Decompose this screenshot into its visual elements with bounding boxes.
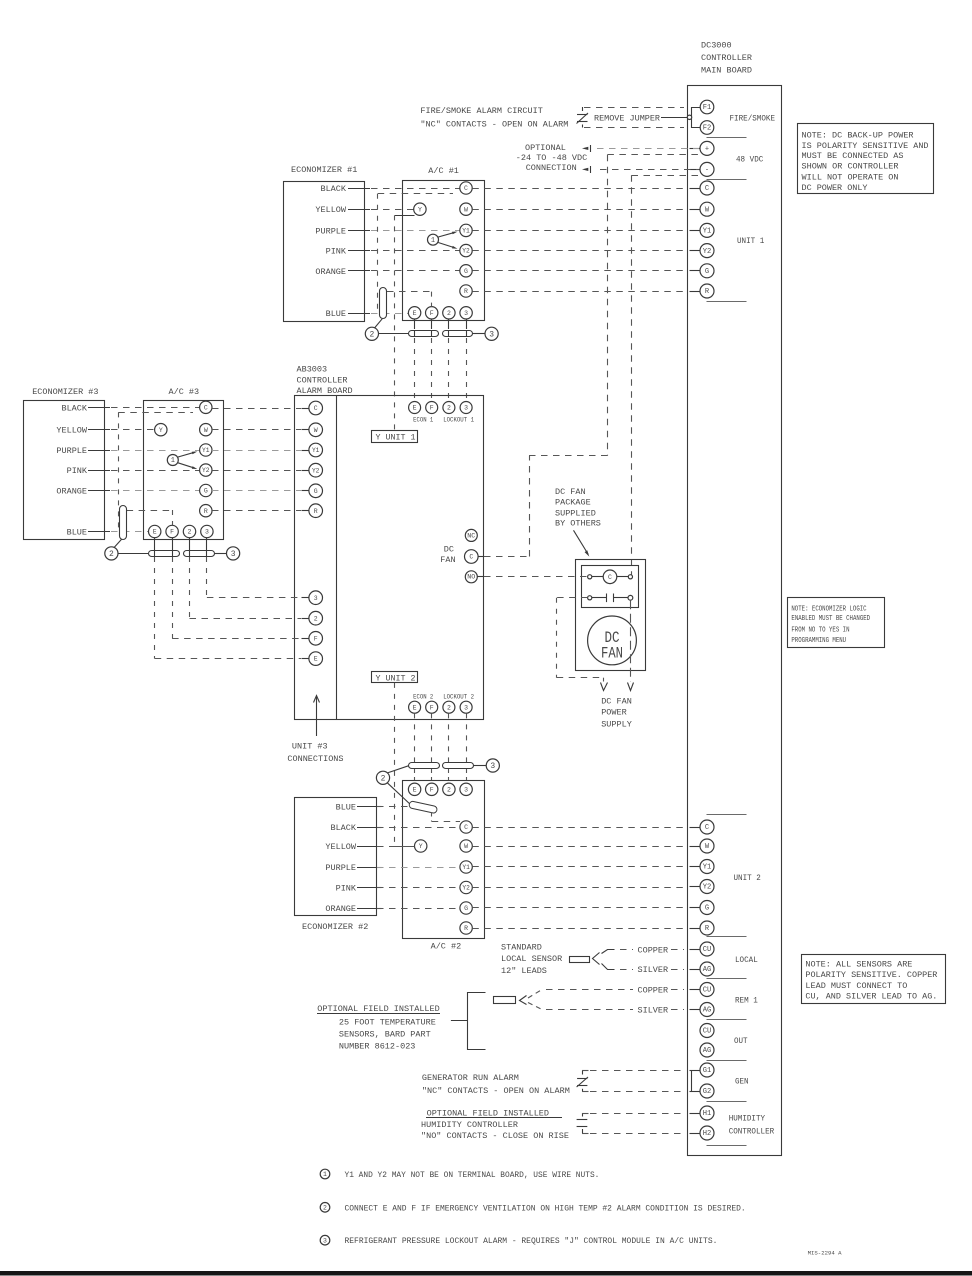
- svg-text:3: 3: [231, 550, 236, 559]
- svg-text:IS POLARITY SENSITIVE AND: IS POLARITY SENSITIVE AND: [802, 141, 929, 151]
- alarm board terminal NO: [465, 571, 477, 583]
- alarm board terminal E (econ1/lockout1): [409, 402, 421, 414]
- remote sensor fork: [520, 996, 527, 1005]
- wire remote sensor silver: [528, 1003, 633, 1010]
- DC fan package outer box: [576, 560, 646, 671]
- A/C #2 terminal 3: [460, 783, 472, 795]
- generator NC contact: [577, 1071, 589, 1092]
- svg-text:W: W: [204, 427, 208, 434]
- svg-text:PINK: PINK: [336, 884, 357, 894]
- A/C #3 terminal 3: [201, 525, 213, 537]
- callout 2 line to wire nut (ac2): [388, 766, 409, 773]
- svg-text:Y: Y: [419, 843, 423, 850]
- sensor bracket: [451, 993, 486, 1050]
- wire ac3 3 to alarm 3: [207, 557, 302, 598]
- svg-text:DC FAN: DC FAN: [601, 697, 632, 707]
- economizer #2 lead BLUE: [336, 803, 380, 813]
- wire silver to AG (local): [671, 969, 684, 971]
- wire econ2 BLACK to C: [377, 827, 460, 829]
- svg-text:W: W: [464, 206, 468, 213]
- svg-text:Y1: Y1: [703, 864, 712, 872]
- note 3 callout circle A/C #1: [485, 327, 498, 340]
- svg-text:DC POWER ONLY: DC POWER ONLY: [802, 183, 868, 193]
- generator run alarm label: [422, 1073, 570, 1096]
- svg-text:SENSORS, BARD PART: SENSORS, BARD PART: [339, 1030, 431, 1040]
- alarm board terminal 3 (left): [302, 591, 323, 605]
- main board terminal CU (y=989): [700, 983, 714, 997]
- svg-text:-24 TO -48 VDC: -24 TO -48 VDC: [516, 153, 587, 163]
- note 1 callout circle at A/C #3: [167, 455, 178, 466]
- column ticks through wire nuts A/C #3: [155, 538, 207, 557]
- main board terminal Y2 (y=250): [700, 244, 714, 258]
- callout 2 line to jumper sleeve (ac3): [114, 539, 122, 548]
- economizer #1 lead BLUE: [326, 309, 370, 319]
- svg-text:LOCKOUT 2: LOCKOUT 2: [443, 694, 474, 701]
- wire econ2 ORANGE to G: [377, 908, 460, 910]
- svg-text:1: 1: [171, 457, 175, 465]
- svg-text:ENABLED MUST BE CHANGED: ENABLED MUST BE CHANGED: [791, 615, 870, 623]
- wire econ2 YELLOW to Y: [377, 846, 415, 848]
- economizer #3 lead BLACK: [61, 403, 110, 413]
- svg-text:CONTROLLER: CONTROLLER: [729, 1126, 775, 1136]
- DC fan package label: [555, 487, 601, 528]
- economizer #1 lead ORANGE: [315, 267, 370, 277]
- callout 3 line (ac3): [214, 553, 226, 555]
- A/C #3 terminal Y2: [200, 464, 212, 476]
- wire econ2 BLUE to jumper: [377, 806, 409, 808]
- alarm board terminal 2 (left): [302, 611, 323, 625]
- A/C #1 terminal R: [460, 285, 472, 297]
- svg-text:PACKAGE: PACKAGE: [555, 498, 591, 508]
- wire F2 dashed: [584, 127, 684, 129]
- alarm board terminal R (left): [302, 504, 323, 518]
- svg-text:F2: F2: [703, 125, 712, 133]
- wire A/C#3 G to alarm board: [212, 490, 301, 492]
- svg-text:Y: Y: [159, 427, 163, 434]
- wire local sensor copper: [602, 950, 634, 954]
- svg-text:BLACK: BLACK: [320, 184, 346, 194]
- svg-text:G2: G2: [703, 1088, 712, 1096]
- A/C #2 terminal 2: [443, 783, 455, 795]
- svg-text:1: 1: [323, 1171, 327, 1178]
- wire remote sensor copper: [528, 990, 633, 999]
- main board terminal R (y=291): [700, 284, 714, 298]
- wire Y unit2 vertical: [395, 683, 415, 847]
- A/C #1 terminal 3: [460, 307, 472, 319]
- svg-text:2: 2: [323, 1204, 327, 1211]
- A/C #2 terminal Y1: [460, 861, 472, 873]
- wire G1 dashed: [590, 1070, 684, 1072]
- A/C #1 terminal Y1: [460, 224, 472, 236]
- svg-text:C: C: [464, 824, 468, 831]
- svg-text:AB3003: AB3003: [297, 365, 328, 375]
- jumper sleeve (vertical) A/C #3: [120, 506, 127, 540]
- svg-text:GENERATOR RUN ALARM: GENERATOR RUN ALARM: [422, 1073, 519, 1083]
- svg-text:G: G: [204, 488, 208, 495]
- main board terminal - (y=169): [700, 162, 714, 176]
- wire ac3 2 to alarm 2: [190, 557, 302, 619]
- svg-text:Y2: Y2: [312, 467, 320, 474]
- main board terminal C (y=188): [700, 181, 714, 195]
- svg-text:CONTROLLER: CONTROLLER: [297, 376, 348, 386]
- svg-text:YELLOW: YELLOW: [315, 205, 347, 215]
- svg-text:ECONOMIZER #2: ECONOMIZER #2: [302, 922, 368, 932]
- svg-text:CONNECT E AND F IF EMERGENCY V: CONNECT E AND F IF EMERGENCY VENTILATION…: [345, 1203, 746, 1213]
- svg-text:Y2: Y2: [703, 248, 712, 256]
- svg-text:E: E: [413, 405, 417, 412]
- svg-text:NOTE: DC BACK-UP POWER: NOTE: DC BACK-UP POWER: [802, 130, 914, 140]
- economizer #3 lead PINK: [67, 466, 110, 476]
- svg-text:DC: DC: [444, 545, 454, 555]
- A/C #2 terminal Y2: [460, 881, 472, 893]
- alarm board terminal 3 (econ2/lockout2): [460, 701, 472, 713]
- A/C #1 terminal Y2: [460, 244, 472, 256]
- svg-text:AG: AG: [703, 966, 712, 974]
- stub C dc fan: [478, 556, 484, 558]
- A/C #3 terminal Y1: [200, 444, 212, 456]
- svg-text:2: 2: [381, 774, 386, 783]
- svg-text:F: F: [430, 704, 434, 711]
- svg-text:MUST BE CONNECTED AS: MUST BE CONNECTED AS: [802, 151, 904, 161]
- svg-text:LOCKOUT 1: LOCKOUT 1: [443, 417, 474, 424]
- svg-text:Y1: Y1: [312, 447, 320, 454]
- svg-text:ECON 2: ECON 2: [413, 694, 433, 701]
- note 2 callout circle A/C #1: [365, 327, 378, 340]
- svg-text:3: 3: [464, 786, 468, 793]
- note box: economizer logic: [788, 598, 885, 648]
- svg-text:PROGRAMMING MENU: PROGRAMMING MENU: [791, 637, 846, 645]
- svg-text:F1: F1: [703, 104, 712, 112]
- F1-F2 jumper bracket: [692, 108, 701, 128]
- A/C #3 terminal 2: [183, 525, 195, 537]
- wire nut sleeve E-F A/C #3: [149, 551, 180, 557]
- svg-text:R: R: [464, 925, 468, 932]
- svg-text:C: C: [705, 185, 709, 193]
- svg-text:YELLOW: YELLOW: [325, 842, 357, 852]
- svg-text:2: 2: [369, 330, 374, 339]
- svg-text:NC: NC: [467, 532, 475, 539]
- svg-text:2: 2: [314, 615, 318, 622]
- svg-text:CU: CU: [703, 946, 712, 954]
- wire E-F emergency vent jumper A/C #3: [127, 510, 173, 525]
- A/C #2 terminal G: [460, 902, 472, 914]
- remove jumper leader line: [661, 117, 687, 119]
- G1-G2 bracket wire: [692, 1071, 701, 1092]
- svg-text:F: F: [170, 529, 174, 536]
- wire F1 dashed: [584, 107, 684, 109]
- svg-text:NUMBER 8612-023: NUMBER 8612-023: [339, 1041, 416, 1051]
- main board terminal C (y=827): [700, 820, 714, 834]
- note 2 callout circle A/C #2: [376, 771, 389, 784]
- A/C #2 terminal W: [460, 840, 472, 852]
- svg-text:G: G: [705, 268, 709, 276]
- wire A/C#1 Y1 to main board: [472, 230, 686, 232]
- main board terminal Y1 (y=230): [700, 223, 714, 237]
- wire A/C#1 W to main board: [472, 209, 686, 211]
- wire A/C#2 Y2 to main board: [472, 887, 686, 889]
- A/C #2 terminal E: [408, 783, 420, 795]
- main board terminal W (y=209): [700, 202, 714, 216]
- alarm board terminal F (econ2/lockout2): [426, 701, 438, 713]
- wire copper to CU (local): [671, 949, 684, 951]
- main board terminal CU (y=1030): [700, 1024, 714, 1038]
- svg-text:2: 2: [188, 529, 192, 536]
- economizer #3 lead ORANGE: [56, 487, 110, 497]
- wire copper to CU (rem): [671, 989, 684, 991]
- A/C #3 terminal G: [200, 484, 212, 496]
- svg-text:Y2: Y2: [462, 248, 470, 255]
- svg-text:F: F: [430, 786, 434, 793]
- alarm board terminal 3 (econ1/lockout1): [460, 402, 472, 414]
- A/C #1 terminal Y: [414, 203, 426, 215]
- economizer #1 lead PINK: [326, 247, 370, 257]
- main board terminal Y2 (y=886): [700, 880, 714, 894]
- wire econ2 PINK to Y2: [377, 887, 460, 889]
- stub NO dc fan: [477, 576, 484, 578]
- svg-text:C: C: [204, 404, 208, 411]
- callout 2 line to wire nut (ac3): [118, 553, 148, 555]
- alarm board terminal F (econ1/lockout1): [426, 402, 438, 414]
- note 3 circle: [320, 1235, 330, 1245]
- humidity controller label: [421, 1120, 569, 1141]
- svg-text:W: W: [314, 427, 318, 434]
- svg-text:GEN: GEN: [735, 1077, 749, 1087]
- wire A/C#1 G to main board: [472, 270, 686, 272]
- main board terminal G1 (y=1070): [700, 1063, 714, 1077]
- A/C #2 terminal R: [460, 922, 472, 934]
- A/C #3 terminal Y: [155, 424, 167, 436]
- jumper sleeve (vertical) A/C #1: [380, 288, 387, 319]
- wire econ3 BLUE to E: [111, 531, 149, 533]
- alarm board terminal Y2 (left): [302, 463, 323, 477]
- svg-text:NOTE: ALL SENSORS ARE: NOTE: ALL SENSORS ARE: [805, 960, 912, 970]
- svg-text:PURPLE: PURPLE: [315, 226, 346, 236]
- svg-text:-: -: [705, 167, 709, 175]
- svg-text:C: C: [314, 405, 318, 412]
- svg-text:HUMIDITY: HUMIDITY: [729, 1113, 765, 1123]
- alarm board terminal C (dc fan): [465, 550, 479, 564]
- svg-text:G1: G1: [703, 1067, 712, 1075]
- wire nut sleeve E-F A/C #2: [409, 763, 440, 769]
- svg-text:+: +: [705, 146, 709, 154]
- svg-text:LEAD MUST CONNECT TO: LEAD MUST CONNECT TO: [805, 981, 907, 991]
- svg-text:CU, AND SILVER LEAD TO AG.: CU, AND SILVER LEAD TO AG.: [805, 992, 937, 1002]
- svg-text:POLARITY SENSITIVE. COPPER: POLARITY SENSITIVE. COPPER: [805, 970, 937, 980]
- alarm board terminal E (left): [302, 652, 323, 666]
- note 1 callout circle at A/C #1: [428, 234, 439, 245]
- wire nut sleeve 2-3 A/C #3: [184, 551, 215, 557]
- svg-text:BY OTHERS: BY OTHERS: [555, 519, 601, 529]
- economizer #2 lead PURPLE: [325, 863, 380, 873]
- svg-text:Y2: Y2: [703, 884, 712, 892]
- svg-text:WILL NOT OPERATE ON: WILL NOT OPERATE ON: [802, 173, 899, 183]
- economizer #1 lead BLACK: [320, 184, 370, 194]
- svg-text:A/C #2: A/C #2: [431, 942, 462, 952]
- A/C #3 box: [144, 401, 224, 540]
- svg-text:BLACK: BLACK: [61, 403, 87, 413]
- wire A/C#3 W to alarm board: [212, 429, 301, 431]
- svg-text:COPPER: COPPER: [638, 986, 669, 996]
- svg-text:PINK: PINK: [67, 466, 88, 476]
- svg-text:FAN: FAN: [601, 645, 623, 663]
- svg-text:MIS-2294 A: MIS-2294 A: [808, 1250, 843, 1257]
- main board terminal F2 (y=127): [700, 121, 714, 135]
- main board terminal AG (y=969): [700, 962, 714, 976]
- A/C #2 terminal F: [426, 783, 438, 795]
- wire ac3 E to alarm E: [155, 557, 302, 659]
- svg-text:"NO" CONTACTS - CLOSE ON RISE: "NO" CONTACTS - CLOSE ON RISE: [421, 1131, 569, 1141]
- callout arrow 1 to Y2: [438, 243, 457, 249]
- svg-text:A/C #3: A/C #3: [169, 387, 200, 397]
- svg-text:CU: CU: [703, 1028, 712, 1036]
- svg-text:G: G: [705, 905, 709, 913]
- AB3003 alarm board outline: [295, 396, 484, 720]
- main board terminal R (y=928): [700, 921, 714, 935]
- svg-text:G: G: [464, 268, 468, 275]
- local sensor fork: [593, 953, 600, 965]
- wire nut sleeve E-F A/C #1: [409, 331, 439, 337]
- wire econ3 BLACK to C: [111, 407, 200, 409]
- svg-text:REM 1: REM 1: [735, 995, 758, 1005]
- svg-text:3: 3: [464, 704, 468, 711]
- unit #3 connections label: [287, 742, 343, 764]
- wire second C lead (jumper logic) A/C #3: [118, 412, 193, 531]
- svg-text:Y UNIT 2: Y UNIT 2: [376, 674, 416, 684]
- fan relay coil row: [588, 570, 633, 584]
- A/C #1 box: [403, 181, 485, 321]
- wire silver to AG (rem): [671, 1009, 684, 1011]
- svg-text:ORANGE: ORANGE: [325, 904, 356, 914]
- Y UNIT 2 label box: [372, 672, 418, 684]
- jumper sleeve (tilted) A/C #2: [409, 801, 438, 814]
- wire - row dashed: [600, 169, 699, 171]
- svg-text:BLUE: BLUE: [336, 803, 356, 813]
- main board terminal CU (y=949): [700, 942, 714, 956]
- alarm board terminal 2 (econ2/lockout2): [443, 701, 455, 713]
- columns wire nuts to A/C#2 terminals: [415, 769, 467, 783]
- fire/smoke alarm circuit label: [420, 106, 568, 129]
- alarm board terminal Y1 (left): [302, 443, 323, 457]
- svg-text:F: F: [430, 405, 434, 412]
- main board terminal AG (y=1050): [700, 1043, 714, 1057]
- wire econ1 ORANGE to G: [371, 270, 460, 272]
- svg-text:FIRE/SMOKE: FIRE/SMOKE: [730, 114, 776, 124]
- alarm board terminal C (left): [302, 401, 323, 415]
- main board terminal W (y=846): [700, 839, 714, 853]
- svg-text:"NC" CONTACTS - OPEN ON ALARM: "NC" CONTACTS - OPEN ON ALARM: [420, 119, 568, 129]
- wire - tap to DC fan supply: [632, 175, 699, 575]
- note 3 callout circle A/C #2: [486, 759, 499, 772]
- svg-text:12" LEADS: 12" LEADS: [501, 966, 547, 976]
- economizer #1 box: [284, 182, 365, 322]
- column ticks through wire nuts A/C #1: [415, 319, 467, 337]
- svg-text:48 VDC: 48 VDC: [736, 155, 763, 165]
- svg-text:F: F: [430, 310, 434, 317]
- svg-text:E: E: [413, 310, 417, 317]
- note box: DC back-up power: [798, 124, 934, 194]
- svg-text:ORANGE: ORANGE: [56, 487, 87, 497]
- wire econ3 YELLOW to Y: [111, 429, 155, 431]
- svg-text:NO: NO: [467, 574, 475, 581]
- svg-text:UNIT 2: UNIT 2: [734, 873, 761, 883]
- wire A/C#3 R to alarm board: [212, 510, 301, 512]
- wire A/C#1 R to main board: [472, 291, 686, 293]
- svg-text:AG: AG: [703, 1007, 712, 1015]
- A/C #3 terminal E: [149, 525, 161, 537]
- svg-text:3: 3: [323, 1237, 327, 1244]
- alarm board terminal G (left): [302, 484, 323, 498]
- wire Y unit1 vertical: [394, 215, 396, 430]
- svg-text:SUPPLY: SUPPLY: [601, 719, 632, 729]
- remote sensor body: [494, 997, 516, 1004]
- svg-text:H1: H1: [703, 1110, 712, 1118]
- note 2 circle: [320, 1203, 330, 1213]
- DC fan motor circle: [588, 616, 637, 665]
- svg-text:LOCAL: LOCAL: [735, 955, 758, 965]
- alarm board terminal F (left): [302, 632, 323, 646]
- alarm board DC FAN label: [440, 545, 455, 566]
- wire A/C#2 C to main board: [472, 827, 686, 829]
- main board terminal H2 (y=1133): [700, 1126, 714, 1140]
- svg-text:R: R: [464, 288, 468, 295]
- svg-text:HUMIDITY CONTROLLER: HUMIDITY CONTROLLER: [421, 1120, 518, 1130]
- svg-text:H2: H2: [703, 1130, 712, 1138]
- svg-text:BLUE: BLUE: [67, 528, 87, 538]
- economizer #3 lead PURPLE: [56, 446, 110, 456]
- wire NO to fan package: [484, 576, 588, 578]
- svg-text:REMOVE JUMPER: REMOVE JUMPER: [594, 113, 660, 123]
- wire nut sleeve 2-3 A/C #2: [443, 763, 474, 769]
- wire A/C#2 R to main board: [472, 928, 686, 930]
- svg-text:C: C: [464, 185, 468, 192]
- callout 3 line (ac2): [473, 765, 486, 767]
- svg-text:OUT: OUT: [734, 1036, 748, 1046]
- svg-text:2: 2: [447, 704, 451, 711]
- main board terminal + (y=148): [700, 141, 714, 155]
- wire econ1 BLACK to C: [371, 188, 460, 190]
- callout arrow 1 to Y1: [438, 232, 457, 237]
- A/C #3 terminal W: [200, 424, 212, 436]
- svg-text:2: 2: [447, 310, 451, 317]
- A/C #2 terminal Y: [415, 840, 427, 852]
- svg-text:3: 3: [464, 310, 468, 317]
- svg-text:UNIT #3: UNIT #3: [292, 742, 328, 752]
- svg-text:3: 3: [489, 330, 494, 339]
- A/C #1 terminal E: [408, 307, 420, 319]
- svg-text:Y1: Y1: [462, 864, 470, 871]
- svg-text:AG: AG: [703, 1047, 712, 1055]
- alarm board terminal NC: [465, 529, 477, 541]
- economizer #2 lead PINK: [336, 884, 380, 894]
- wire fan contact to supply: [557, 598, 608, 691]
- economizer #2 lead BLACK: [330, 823, 380, 833]
- svg-text:SILVER: SILVER: [638, 965, 669, 975]
- A/C #3 terminal F: [166, 525, 178, 537]
- wire econ3 ORANGE to G: [111, 490, 200, 492]
- svg-text:CONNECTIONS: CONNECTIONS: [287, 754, 343, 764]
- svg-text:"NC" CONTACTS - OPEN ON ALARM: "NC" CONTACTS - OPEN ON ALARM: [422, 1086, 570, 1096]
- callout arrow to - wire: [582, 166, 591, 173]
- main board terminal G (y=270): [700, 264, 714, 278]
- svg-text:25 FOOT TEMPERATURE: 25 FOOT TEMPERATURE: [339, 1018, 436, 1028]
- svg-text:R: R: [204, 508, 208, 515]
- svg-text:3: 3: [314, 595, 318, 602]
- svg-text:2: 2: [447, 405, 451, 412]
- humidity NO contact: [577, 1113, 589, 1134]
- svg-text:Y: Y: [418, 206, 422, 213]
- DC fan package inner box: [582, 566, 639, 608]
- wire econ1 PINK to Y2: [371, 250, 460, 252]
